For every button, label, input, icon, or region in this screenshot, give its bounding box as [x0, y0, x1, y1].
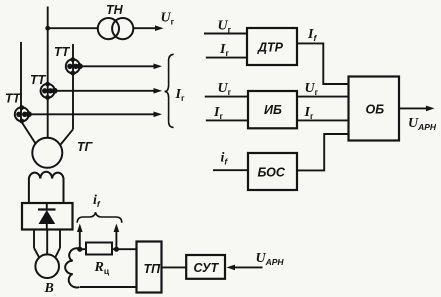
svg-text:ТН: ТН: [106, 3, 124, 17]
svg-text:ТТ: ТТ: [5, 92, 22, 106]
svg-text:ТТ: ТТ: [54, 45, 71, 59]
svg-text:ТТ: ТТ: [30, 73, 47, 87]
svg-text:В: В: [44, 281, 54, 296]
svg-text:ДТР: ДТР: [257, 41, 284, 55]
svg-text:СУТ: СУТ: [194, 261, 220, 275]
svg-text:ТП: ТП: [144, 262, 162, 276]
svg-text:ОБ: ОБ: [366, 103, 385, 117]
svg-text:ИБ: ИБ: [264, 103, 282, 117]
svg-text:БОС: БОС: [258, 166, 286, 180]
svg-text:ТГ: ТГ: [77, 140, 94, 154]
